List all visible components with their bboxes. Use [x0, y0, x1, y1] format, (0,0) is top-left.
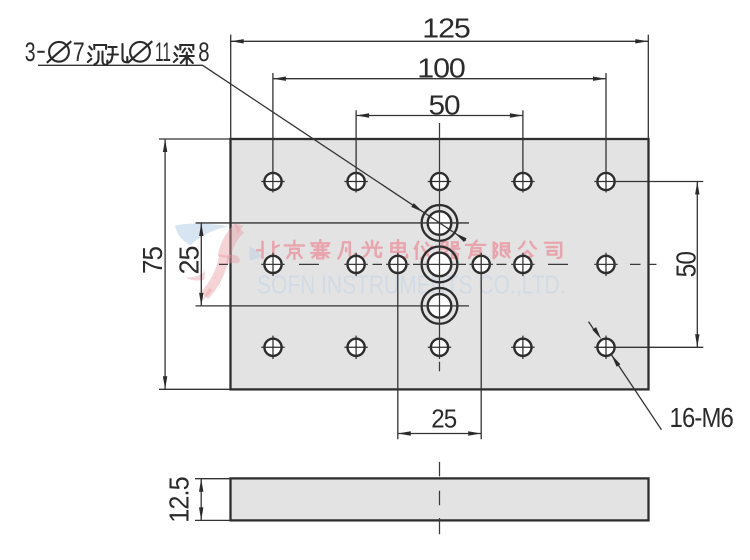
- svg-text:11: 11: [155, 37, 171, 67]
- dimension 75 left: [159, 139, 231, 389]
- watermark chinese company name: [257, 240, 561, 259]
- svg-text:SOFN INSTRUMENTS CO.,LTD.: SOFN INSTRUMENTS CO.,LTD.: [257, 270, 566, 300]
- plate top view: [231, 139, 649, 389]
- counterbore hole top: [422, 205, 458, 241]
- dimension 50 right: [594, 182, 703, 348]
- thread callout stub arrow: [592, 327, 601, 339]
- counterbore callout text chinese kong: [108, 44, 127, 63]
- dimension 50 top: [356, 110, 523, 192]
- hole row3 col4: [511, 336, 534, 359]
- counterbore callout text chinese shen: [174, 45, 194, 65]
- hole row1 col3: [428, 173, 451, 190]
- counterbore callout text 7: [73, 37, 85, 67]
- side view plate: [231, 478, 649, 520]
- thread callout text: [670, 402, 734, 433]
- svg-text:50: 50: [671, 251, 702, 277]
- counterbore hole middle: [422, 247, 458, 283]
- counterbore callout diameter symbol 2: [128, 41, 153, 63]
- svg-text:75: 75: [137, 247, 168, 274]
- hole row3 col5: [597, 336, 614, 359]
- watermark logo blue wing: [175, 224, 229, 246]
- dimension 25 left: [196, 223, 470, 306]
- hole row2 mid-left: [389, 256, 406, 273]
- hole row2 col1: [264, 253, 281, 276]
- hole row3 col2: [344, 336, 367, 359]
- hole row1 col5: [597, 173, 614, 190]
- hole row1 col2: [344, 173, 367, 190]
- hole row1 col4: [511, 173, 534, 190]
- hole row1 col1: [261, 173, 284, 190]
- counterbore callout arrows: [411, 203, 466, 242]
- counterbore callout dash: [37, 51, 44, 53]
- centerline vertical through center column: [439, 123, 441, 534]
- svg-text:25: 25: [431, 404, 456, 434]
- watermark logo pink flame: [205, 228, 240, 296]
- hole row2 mid-right: [473, 256, 490, 273]
- thread callout stub: [589, 322, 597, 333]
- centerline horizontal through middle row: [219, 263, 657, 265]
- counterbore callout text 8: [198, 37, 209, 67]
- thread callout leader 16-M6: [611, 355, 661, 430]
- dimension 25 bottom: [398, 253, 481, 440]
- counterbore callout leader: [38, 65, 466, 240]
- svg-text:7: 7: [73, 37, 85, 67]
- svg-text:50: 50: [429, 89, 460, 120]
- hole row3 col3: [428, 339, 451, 356]
- hole row3 col1: [261, 336, 284, 359]
- watermark english company name: [257, 270, 566, 300]
- svg-text:16-M6: 16-M6: [670, 402, 734, 433]
- thread callout arrow: [611, 355, 620, 367]
- counterbore callout diameter symbol 1: [47, 41, 72, 63]
- watermark logo blue fragment: [250, 247, 262, 261]
- dimension 125 top: [231, 35, 649, 139]
- svg-text:3: 3: [25, 37, 36, 67]
- counterbore callout text chinese chen: [88, 45, 108, 65]
- hole row2 col4: [514, 253, 531, 276]
- svg-text:12.5: 12.5: [164, 477, 195, 523]
- counterbore callout text 3: [25, 37, 36, 67]
- svg-text:25: 25: [174, 246, 205, 274]
- hole row2 col5: [597, 253, 614, 276]
- svg-text:8: 8: [198, 37, 209, 67]
- counterbore callout text 11: [155, 37, 171, 67]
- dimension 12.5 side view: [195, 479, 231, 521]
- dimension 100 top: [273, 73, 606, 193]
- svg-text:100: 100: [417, 52, 465, 83]
- counterbore hole bottom: [422, 288, 458, 324]
- hole row2 col2: [348, 253, 365, 276]
- svg-text:125: 125: [422, 12, 470, 43]
